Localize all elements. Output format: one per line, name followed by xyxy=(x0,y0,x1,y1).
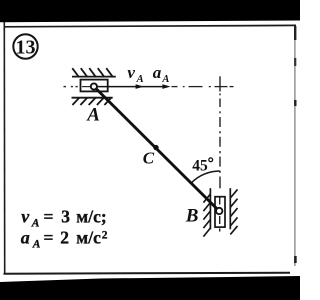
slider B body xyxy=(215,197,225,227)
svg-text:м/с;: м/с; xyxy=(76,207,106,227)
svg-text:2: 2 xyxy=(102,229,108,241)
frame bottom border xyxy=(4,272,291,275)
given value line vA = 3 m/s xyxy=(21,207,106,230)
rod AB xyxy=(94,87,219,212)
svg-text:=: = xyxy=(44,207,54,227)
axis line through slider A xyxy=(82,86,91,88)
guide B left hatch marks xyxy=(203,194,210,237)
frame right border (faint) xyxy=(294,26,296,266)
vertical axis dash-dot through B xyxy=(219,94,221,232)
support A lower hatch marks xyxy=(72,98,111,105)
svg-text:B: B xyxy=(185,206,199,227)
guide B right rail xyxy=(229,188,231,229)
horizontal axis dash-dot right of vectors xyxy=(172,86,234,88)
angle arc 45 deg xyxy=(191,171,220,183)
vertical axis solid segment at cross xyxy=(219,76,221,91)
velocity/acceleration vector line from A xyxy=(97,86,164,88)
svg-text:A: A xyxy=(161,74,169,85)
svg-text:=: = xyxy=(44,228,54,248)
frame right border dark blob bottom xyxy=(294,256,297,263)
point C marker on rod xyxy=(153,145,158,150)
svg-text:м/с: м/с xyxy=(76,228,101,248)
arrowhead of vector aA xyxy=(162,84,170,89)
svg-text:v: v xyxy=(127,63,135,82)
svg-text:a: a xyxy=(21,228,30,248)
svg-text:A: A xyxy=(31,218,40,230)
svg-text:13: 13 xyxy=(16,37,36,59)
svg-text:3: 3 xyxy=(61,207,70,227)
slider A body xyxy=(81,80,108,92)
horizontal axis dash-dot left of slider A xyxy=(64,86,78,88)
support A upper hatch line xyxy=(72,76,116,78)
bottom black scan bar xyxy=(0,276,300,300)
guide B right hatch marks xyxy=(230,189,237,234)
support A lower hatch line xyxy=(72,97,113,99)
frame right border dark blob top xyxy=(294,26,296,40)
frame top border xyxy=(4,25,297,26)
svg-text:v: v xyxy=(21,207,30,227)
degree symbol of 45 xyxy=(209,158,213,162)
guide B left rail xyxy=(209,188,211,229)
frame right border dark blob mid2 xyxy=(294,100,296,106)
problem number circle xyxy=(13,34,37,58)
svg-text:a: a xyxy=(153,63,162,82)
top black scan bar xyxy=(0,0,300,22)
arrowhead of vector vA xyxy=(136,84,144,89)
frame right border dark blob mid xyxy=(294,58,296,66)
frame left border xyxy=(3,22,5,275)
svg-text:45: 45 xyxy=(192,157,208,174)
support A upper hatch marks xyxy=(72,68,113,77)
svg-text:A: A xyxy=(32,239,41,251)
svg-text:C: C xyxy=(143,148,155,167)
svg-text:A: A xyxy=(86,105,100,126)
given value line aA = 2 m/s^2 xyxy=(21,228,108,251)
pin A xyxy=(91,83,97,89)
svg-text:A: A xyxy=(136,74,144,85)
svg-text:2: 2 xyxy=(60,228,69,248)
pin B xyxy=(216,208,222,214)
